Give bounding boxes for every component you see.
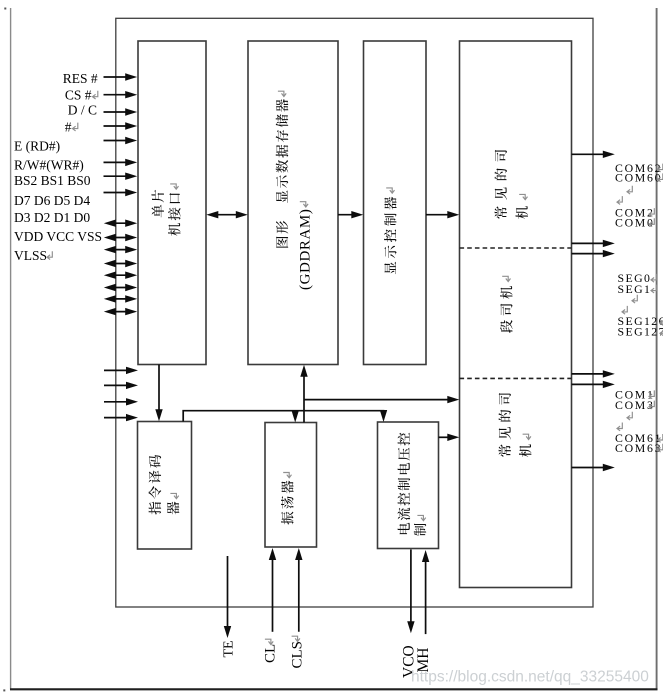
wire input R/W#(WR#) xyxy=(104,159,138,166)
return mark xyxy=(658,164,663,172)
block current/voltage control (电流控制电压控制) xyxy=(378,422,439,549)
wire input aux4 xyxy=(104,414,138,421)
page right border xyxy=(656,8,658,690)
svg-text:CLS: CLS xyxy=(289,641,305,669)
wire MCU->decoder xyxy=(155,365,162,422)
block GDDRAM (图形显示数据存储器) xyxy=(248,41,338,365)
wire output SEG out a xyxy=(572,370,615,377)
text common driver1 col1 常见的司 xyxy=(495,150,507,219)
wire input RES# xyxy=(104,73,138,80)
outer frame xyxy=(116,18,593,607)
label CLS xyxy=(289,636,305,668)
return mark xyxy=(651,285,656,293)
wire bidir bus5 xyxy=(104,308,137,315)
wire display controller->driver xyxy=(426,211,459,218)
text oscillator 振荡器 xyxy=(281,473,294,525)
corner dot top xyxy=(4,8,6,10)
svg-text:CL: CL xyxy=(263,644,279,663)
wire GDDRAM->display controller xyxy=(338,211,363,218)
svg-text:D7 D6 D5 D4: D7 D6 D5 D4 xyxy=(14,193,90,208)
svg-text:(GDDRAM): (GDDRAM) xyxy=(298,209,314,290)
wire output COM even b xyxy=(572,250,615,257)
block display controller (显示控制器) xyxy=(364,41,427,365)
return mark blank line xyxy=(627,186,632,194)
wire input aux3 xyxy=(104,398,138,405)
text common driver1 col2 机 xyxy=(516,194,528,218)
wire oscillator->GDDRAM up xyxy=(300,365,307,423)
wire decoder bus to oscillator and control xyxy=(183,411,383,422)
wire input BS2-0 xyxy=(104,173,138,180)
return mark blank line xyxy=(617,423,622,431)
svg-text:R/W#(WR#): R/W#(WR#) xyxy=(14,158,84,173)
return mark xyxy=(660,317,663,325)
svg-text:BS2 BS1 BS0: BS2 BS1 BS0 xyxy=(14,173,91,188)
text (GDDRAM) xyxy=(298,202,314,290)
corner dot bottom xyxy=(3,689,5,691)
return mark xyxy=(658,444,663,452)
text control col1 电流控制电压控 xyxy=(398,433,411,534)
return mark xyxy=(658,434,663,442)
wire bidir bus2 xyxy=(104,272,137,279)
wire input D7-D4 xyxy=(104,189,138,196)
block command decoder (指令译码器) xyxy=(138,422,192,550)
return mark xyxy=(47,251,52,259)
text common driver2 col1 常见的司 xyxy=(499,393,511,457)
label TE xyxy=(222,640,237,657)
wire CL input xyxy=(269,548,276,632)
svg-text:COM0: COM0 xyxy=(615,216,655,230)
return mark xyxy=(649,218,654,226)
svg-text:https://blog.csdn.net/qq_33255: https://blog.csdn.net/qq_33255400 xyxy=(411,669,649,686)
wire bidir D3-D0 xyxy=(104,220,137,227)
text decoder col1 指令译码 xyxy=(149,455,162,515)
return mark xyxy=(73,123,78,131)
block driver array (common/segment drivers) xyxy=(460,41,572,588)
wire input aux1 xyxy=(104,367,138,374)
svg-text:VDD VCC VSS: VDD VCC VSS xyxy=(14,229,102,244)
return mark xyxy=(649,390,654,398)
wire VCO output xyxy=(407,550,414,634)
return mark xyxy=(93,91,98,99)
label CL xyxy=(263,639,279,663)
block MCU interface (单片机接口) xyxy=(138,41,206,365)
return mark blank line xyxy=(622,306,627,314)
wire bidir bus3 xyxy=(104,284,137,291)
wire output COM62/60 xyxy=(572,151,615,158)
svg-text:COM3: COM3 xyxy=(615,398,655,412)
text common driver2 col2 机 xyxy=(519,434,531,457)
return mark xyxy=(658,173,663,181)
label MH xyxy=(415,648,432,673)
return mark blank line xyxy=(617,196,622,204)
svg-text:COM63: COM63 xyxy=(615,441,662,455)
label VCO xyxy=(401,645,418,678)
branch arrow into oscillator xyxy=(294,411,296,416)
wire CLS input xyxy=(295,548,302,632)
wire input E(RD#) xyxy=(104,137,138,144)
wire bidir bus1 xyxy=(104,260,137,267)
page bottom border xyxy=(10,688,658,690)
svg-text:TE: TE xyxy=(222,640,237,657)
text control col2 制 xyxy=(414,515,426,535)
wire control->driver xyxy=(439,434,460,441)
wire MCU<->GDDRAM bidirectional xyxy=(206,211,248,218)
svg-text:VLSS: VLSS xyxy=(14,248,47,263)
page left border xyxy=(10,8,12,690)
block oscillator (振荡器) xyxy=(265,423,317,548)
text MCU col2 机接口 xyxy=(168,184,181,236)
return mark blank line xyxy=(632,295,637,303)
svg-text:E (RD#): E (RD#) xyxy=(14,138,60,153)
wire input D/C xyxy=(104,108,138,115)
wire bidir VDD VCC VSS xyxy=(104,234,137,241)
wire output COM61/63 xyxy=(572,464,615,471)
wire input CS# xyxy=(104,91,138,98)
wire oscillator->driver xyxy=(304,396,459,403)
text GDDRAM cjk xyxy=(276,91,289,247)
return mark xyxy=(649,401,654,409)
wire output SEG out b xyxy=(572,381,615,388)
svg-text:CS #: CS # xyxy=(65,87,92,102)
text MCU col1 单片 xyxy=(152,190,164,218)
wire output COM even a xyxy=(572,240,615,247)
return mark xyxy=(651,274,656,282)
svg-text:COM60: COM60 xyxy=(615,171,662,185)
svg-text:D3 D2 D1 D0: D3 D2 D1 D0 xyxy=(14,210,90,225)
wire bidir VLSS xyxy=(104,246,137,253)
svg-text:D / C: D / C xyxy=(68,103,97,118)
return mark xyxy=(649,208,654,216)
text segment driver 段司机 xyxy=(500,276,512,333)
return mark xyxy=(660,327,663,335)
svg-text:RES #: RES # xyxy=(63,71,98,86)
text display controller 显示控制器 xyxy=(384,188,397,274)
wire MH input xyxy=(422,550,429,634)
svg-text:SEG127: SEG127 xyxy=(618,325,663,339)
dashed divider 1 (com/seg) xyxy=(460,247,572,249)
wire input aux2 xyxy=(104,382,138,389)
wire input # xyxy=(104,122,138,129)
svg-text:SEG1: SEG1 xyxy=(618,282,652,296)
return mark blank line xyxy=(627,412,632,420)
dashed divider 2 (seg/com) xyxy=(460,377,572,379)
text decoder col2 器 xyxy=(167,493,179,514)
wire bidir bus4 xyxy=(104,295,137,302)
wire TE output xyxy=(224,556,231,638)
svg-text:#: # xyxy=(65,119,72,134)
